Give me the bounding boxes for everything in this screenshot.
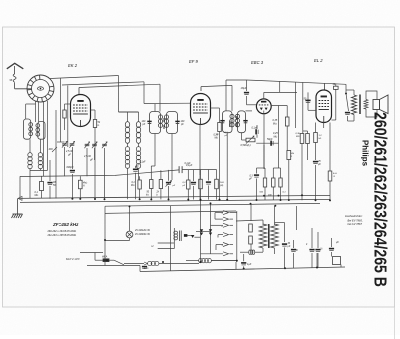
svg-text:Hochastrichter:: Hochastrichter:: [345, 214, 363, 218]
svg-text:EL 2: EL 2: [314, 58, 323, 63]
svg-text:bei GV 7867: bei GV 7867: [348, 222, 363, 226]
svg-text:18µF: 18µF: [241, 86, 247, 90]
svg-text:Ω: Ω: [98, 124, 100, 127]
svg-text:0,5MΩ(L): 0,5MΩ(L): [241, 144, 251, 147]
svg-text:Bei EV 7865,: Bei EV 7865,: [348, 219, 363, 223]
svg-text:1B: 1B: [53, 182, 56, 184]
svg-text:pF: pF: [142, 124, 146, 126]
svg-text:Ω: Ω: [156, 194, 158, 197]
svg-text:600pF: 600pF: [67, 166, 75, 169]
svg-text:0,1µF: 0,1µF: [186, 164, 193, 167]
svg-text:(M): (M): [220, 185, 224, 187]
svg-text:kΩ: kΩ: [319, 137, 322, 140]
svg-text:MΩ: MΩ: [35, 194, 39, 197]
svg-text:260/261/262/263/264/265 B: 260/261/262/263/264/265 B: [371, 112, 391, 287]
svg-text:4V≈6049N-39: 4V≈6049N-39: [135, 233, 150, 236]
svg-text:EBC 3: EBC 3: [251, 60, 264, 65]
svg-text:MΩ: MΩ: [296, 135, 300, 138]
svg-text:MΩ: MΩ: [215, 137, 219, 140]
svg-text:MΩ: MΩ: [273, 123, 277, 126]
svg-text:260-262 u 264 B:M=100Ω: 260-262 u 264 B:M=100Ω: [47, 230, 77, 233]
svg-text:MΩ: MΩ: [131, 184, 135, 187]
svg-text:H: H: [152, 244, 154, 248]
svg-text:430: 430: [49, 148, 54, 151]
svg-text:EK 2: EK 2: [68, 63, 78, 68]
svg-text:pF: pF: [180, 124, 184, 126]
svg-text:261-263 u 265 B:M=200Ω: 261-263 u 265 B:M=200Ω: [47, 234, 77, 237]
svg-text:2V≈6012N-39: 2V≈6012N-39: [134, 229, 150, 232]
svg-text:50pF: 50pF: [267, 138, 273, 141]
svg-text:1µF: 1µF: [247, 263, 252, 266]
svg-text:MΩ: MΩ: [274, 136, 278, 139]
svg-text:0,1µF: 0,1µF: [140, 162, 147, 164]
svg-text:1kΩ: 1kΩ: [220, 181, 224, 184]
svg-text:kΩ: kΩ: [146, 194, 149, 197]
svg-text:EF 9: EF 9: [189, 59, 198, 64]
svg-text:ZF=452 kHz: ZF=452 kHz: [52, 222, 79, 227]
svg-text:A: A: [82, 185, 85, 188]
svg-text:6/12 V≈ kHz: 6/12 V≈ kHz: [66, 258, 80, 261]
svg-text:Philips: Philips: [361, 140, 370, 167]
